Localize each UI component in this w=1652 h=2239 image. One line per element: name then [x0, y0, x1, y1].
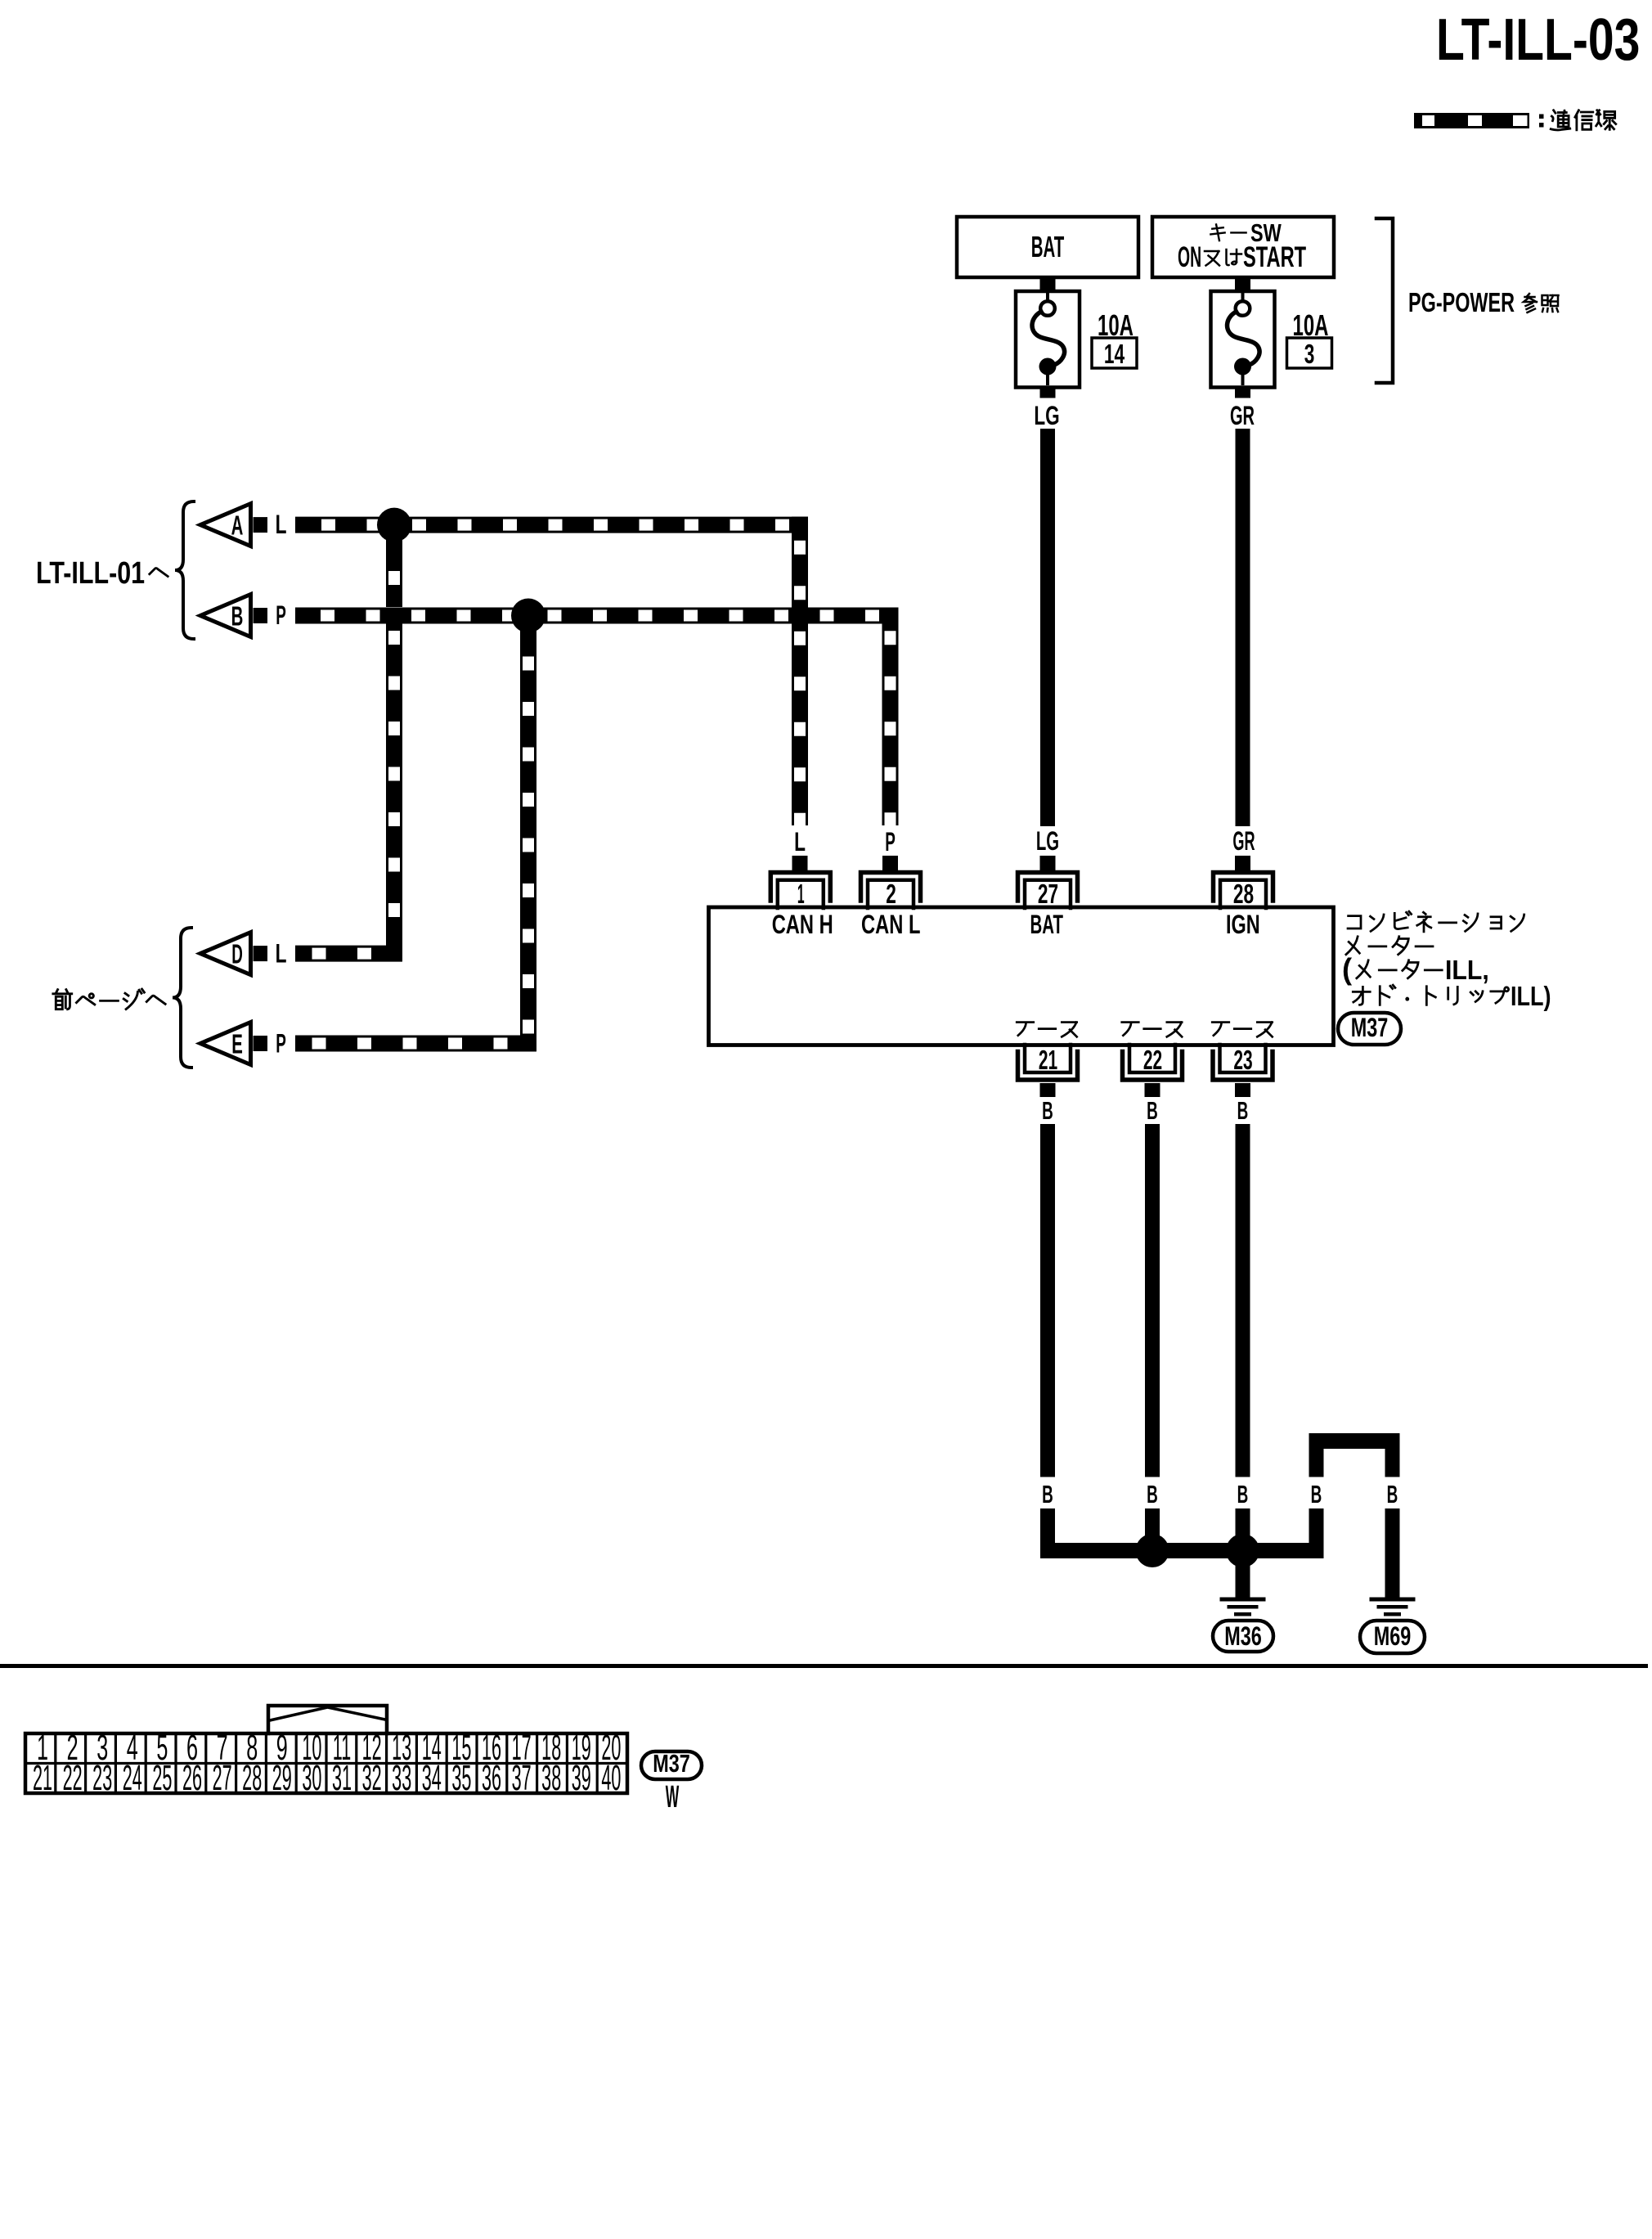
- jog to M69 ground: [1309, 1433, 1400, 1449]
- svg-text:L: L: [276, 939, 287, 969]
- pin 28: [1214, 873, 1273, 901]
- wire GR vertical: [1236, 429, 1250, 826]
- pin 27: [1018, 873, 1078, 901]
- label combination meter description: [1348, 916, 1361, 928]
- svg-text:34: 34: [422, 1759, 442, 1798]
- svg-text:L: L: [794, 827, 806, 856]
- fuse 3 box: [1211, 291, 1275, 388]
- svg-text:M37: M37: [653, 1749, 690, 1778]
- svg-text:21: 21: [1039, 1045, 1057, 1075]
- svg-text:(: (: [1342, 952, 1353, 986]
- stub below fuse 3: [1235, 386, 1250, 398]
- stub above pin 27: [1040, 856, 1056, 871]
- pin 23: [1213, 1052, 1273, 1081]
- svg-text:LG: LG: [1034, 401, 1059, 430]
- ground symbol M69: [1370, 1598, 1416, 1602]
- CAN line down to pin 2: [882, 608, 899, 826]
- ground label アース pin21: [1017, 1023, 1034, 1036]
- svg-text:P: P: [276, 600, 286, 631]
- CAN line A horizontal: [295, 517, 808, 533]
- junction dot line B: [511, 599, 545, 633]
- svg-text:A: A: [231, 510, 244, 540]
- svg-text:39: 39: [572, 1759, 591, 1798]
- ground symbol M36: [1220, 1598, 1266, 1602]
- ground wire lower segment: [1309, 1508, 1324, 1543]
- svg-text:22: 22: [63, 1759, 83, 1798]
- svg-text:35: 35: [451, 1759, 471, 1798]
- svg-text:ILL): ILL): [1511, 981, 1551, 1011]
- svg-text:LT-ILL-03: LT-ILL-03: [1436, 6, 1640, 72]
- ground wire vertical: [1236, 1124, 1250, 1477]
- wire LG vertical: [1040, 429, 1055, 826]
- stub to fuse 14: [1040, 277, 1056, 292]
- connector arrow A (to LT-ILL-01): [200, 504, 251, 546]
- svg-text:CAN H: CAN H: [772, 909, 833, 938]
- svg-text:M69: M69: [1374, 1621, 1412, 1650]
- svg-text:23: 23: [1233, 1045, 1252, 1075]
- ground wire vertical: [1145, 1124, 1160, 1477]
- ground connector oval M36: [1213, 1621, 1273, 1652]
- bracket PG-POWER: [1376, 218, 1393, 383]
- svg-text:B: B: [1387, 1481, 1398, 1509]
- svg-text:27: 27: [213, 1759, 232, 1798]
- svg-text:B: B: [1237, 1098, 1249, 1126]
- svg-text:ON: ON: [1178, 241, 1201, 274]
- brace previous-page group: [173, 928, 191, 1068]
- connector arrow B (to LT-ILL-01): [200, 595, 251, 637]
- junction dot ground bus 1: [1136, 1534, 1169, 1567]
- fuse 14 bottom terminal: [1039, 358, 1057, 375]
- junction dot line A: [377, 508, 411, 542]
- svg-text:31: 31: [332, 1759, 352, 1798]
- fuse 14 element: [1032, 312, 1065, 365]
- CAN line junction-A vertical lower: [386, 623, 402, 962]
- svg-text:BAT: BAT: [1031, 231, 1065, 264]
- svg-text:BAT: BAT: [1030, 910, 1064, 939]
- stub above pin 1: [792, 856, 808, 871]
- fuse 3 top terminal: [1236, 301, 1250, 316]
- power source box key SW ON/START: [1152, 217, 1334, 277]
- svg-text:29: 29: [272, 1759, 292, 1798]
- junction dot ground bus 2: [1226, 1534, 1259, 1567]
- fuse 14 top terminal: [1040, 301, 1055, 316]
- ground wire vertical: [1040, 1124, 1055, 1477]
- legend colon: [1539, 115, 1544, 119]
- svg-text:M36: M36: [1224, 1621, 1262, 1650]
- legend text 通信線: [1551, 110, 1570, 130]
- stub above pin 28: [1235, 856, 1250, 871]
- CAN line junction-B vertical: [520, 623, 536, 1051]
- svg-text:23: 23: [92, 1759, 112, 1798]
- svg-text:30: 30: [302, 1759, 321, 1798]
- connector arrow E (to previous page): [200, 1023, 251, 1065]
- CAN line B horizontal: [295, 608, 899, 624]
- combination meter box M37: [709, 907, 1334, 1045]
- connector face tab: [268, 1706, 387, 1733]
- svg-text:40: 40: [601, 1759, 621, 1798]
- svg-text:E: E: [231, 1028, 243, 1059]
- connector oval M37 (face): [641, 1751, 702, 1779]
- ground wire lower segment: [1040, 1508, 1055, 1558]
- svg-text:25: 25: [152, 1759, 172, 1798]
- label 前ページへ: [53, 990, 72, 1009]
- pin 2: [861, 873, 921, 901]
- svg-text:B: B: [1237, 1481, 1249, 1509]
- CAN line D horizontal: [295, 946, 402, 962]
- ground connector oval M69: [1360, 1621, 1425, 1653]
- svg-text:21: 21: [33, 1759, 52, 1798]
- svg-text:1: 1: [797, 878, 805, 909]
- fuse 3 element: [1228, 312, 1260, 365]
- svg-text:GR: GR: [1232, 825, 1255, 856]
- svg-text:B: B: [1042, 1098, 1053, 1126]
- svg-text:PG-POWER: PG-POWER: [1408, 288, 1515, 318]
- svg-text:P: P: [276, 1028, 286, 1059]
- svg-text:22: 22: [1143, 1045, 1162, 1075]
- brace LT-ILL-01 group: [175, 501, 194, 639]
- ground label アース pin22: [1122, 1023, 1139, 1036]
- svg-text:33: 33: [392, 1759, 411, 1798]
- svg-text:B: B: [1147, 1481, 1158, 1509]
- pin 1: [770, 873, 830, 901]
- svg-text:2: 2: [886, 879, 896, 910]
- pin 22: [1123, 1052, 1183, 1081]
- svg-text:START: START: [1243, 241, 1307, 273]
- svg-text:P: P: [885, 827, 896, 857]
- svg-text:36: 36: [482, 1759, 501, 1798]
- svg-text:28: 28: [242, 1759, 262, 1798]
- stub above pin 2: [882, 856, 898, 871]
- svg-text:CAN L: CAN L: [861, 909, 920, 938]
- svg-text:IGN: IGN: [1226, 910, 1260, 938]
- legend comm-line bar: [1414, 113, 1529, 128]
- svg-text:D: D: [231, 938, 243, 969]
- svg-text:24: 24: [123, 1759, 142, 1798]
- svg-text:37: 37: [512, 1759, 532, 1798]
- power source box BAT: [957, 217, 1138, 277]
- svg-text:ILL,: ILL,: [1445, 955, 1489, 986]
- fuse 3 bottom terminal: [1234, 358, 1251, 375]
- separator line: [0, 1664, 1648, 1668]
- svg-text:B: B: [1042, 1481, 1053, 1509]
- ground bus: [1040, 1543, 1324, 1558]
- connector arrow D (to previous page): [200, 933, 251, 975]
- CAN line junction-A vertical upper: [386, 533, 402, 607]
- svg-text:LT-ILL-01: LT-ILL-01: [36, 556, 145, 591]
- CAN line E horizontal: [295, 1036, 536, 1052]
- svg-text:B: B: [231, 600, 244, 631]
- svg-text:GR: GR: [1230, 401, 1255, 430]
- fuse 14 box: [1016, 291, 1080, 388]
- pin 21: [1018, 1052, 1078, 1081]
- svg-text:LG: LG: [1036, 826, 1059, 856]
- svg-text:38: 38: [541, 1759, 561, 1798]
- fuse 3 number box: [1287, 338, 1332, 368]
- ground wire lower segment: [1236, 1508, 1250, 1598]
- CAN line down to pin 1: [792, 517, 808, 825]
- stub below fuse 14: [1040, 386, 1056, 398]
- svg-text:14: 14: [1104, 339, 1125, 370]
- connector oval M37: [1338, 1013, 1401, 1045]
- stub to fuse 3: [1235, 277, 1250, 292]
- svg-text:26: 26: [182, 1759, 202, 1798]
- svg-text:27: 27: [1038, 879, 1058, 910]
- svg-text:W: W: [666, 1780, 680, 1814]
- svg-text:B: B: [1147, 1098, 1158, 1126]
- fuse 14 number box: [1092, 338, 1137, 368]
- svg-text:32: 32: [362, 1759, 382, 1798]
- connector face table M37: [25, 1733, 627, 1793]
- svg-text:M37: M37: [1351, 1013, 1389, 1041]
- ground label アース pin23: [1212, 1023, 1229, 1036]
- ground wire lower segment: [1145, 1508, 1160, 1543]
- svg-text:3: 3: [1304, 339, 1315, 370]
- svg-text:28: 28: [1233, 879, 1254, 910]
- svg-text:B: B: [1311, 1481, 1322, 1509]
- ground wire lower segment: [1385, 1508, 1400, 1598]
- svg-text:L: L: [276, 510, 287, 539]
